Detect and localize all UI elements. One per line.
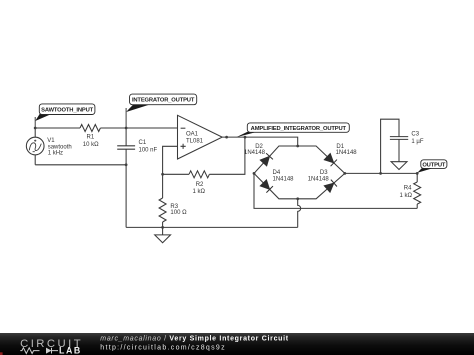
svg-text:sawtooth: sawtooth (48, 144, 72, 150)
svg-text:1 kΩ: 1 kΩ (400, 193, 413, 199)
svg-text:R4: R4 (404, 186, 412, 192)
svg-text:D2: D2 (255, 144, 263, 150)
svg-text:1 kΩ: 1 kΩ (193, 189, 206, 195)
svg-text:10 kΩ: 10 kΩ (83, 142, 99, 148)
svg-text:100 nF: 100 nF (139, 148, 158, 154)
svg-text:1N4148: 1N4148 (273, 176, 295, 182)
svg-text:C3: C3 (411, 132, 419, 138)
svg-text:C1: C1 (139, 140, 147, 146)
svg-text:D4: D4 (273, 170, 281, 176)
svg-text:D3: D3 (320, 170, 328, 176)
svg-text:AMPLIFIED_INTEGRATOR_OUTPUT: AMPLIFIED_INTEGRATOR_OUTPUT (251, 126, 347, 132)
svg-text:R1: R1 (87, 134, 95, 140)
svg-text:INTEGRATOR_OUTPUT: INTEGRATOR_OUTPUT (132, 98, 195, 104)
svg-text:LAB: LAB (59, 346, 82, 355)
svg-text:D1: D1 (336, 144, 344, 150)
svg-text:R2: R2 (196, 182, 204, 188)
svg-text:1N4148: 1N4148 (308, 176, 330, 182)
svg-text:100 Ω: 100 Ω (170, 210, 187, 216)
svg-text:http://circuitlab.com/cz8qs9z: http://circuitlab.com/cz8qs9z (100, 344, 226, 351)
svg-text:1 kHz: 1 kHz (48, 151, 63, 157)
svg-text:1 µF: 1 µF (411, 139, 423, 145)
svg-text:R3: R3 (170, 204, 178, 210)
svg-text:OA1: OA1 (186, 131, 199, 137)
svg-text:OUTPUT: OUTPUT (422, 162, 446, 168)
svg-text:TL081: TL081 (186, 138, 204, 144)
svg-text:1N4148: 1N4148 (244, 150, 266, 156)
svg-text:SAWTOOTH_INPUT: SAWTOOTH_INPUT (41, 107, 94, 113)
svg-text:marc_macalinao / Very Simple I: marc_macalinao / Very Simple Integrator … (100, 335, 289, 342)
svg-text:V1: V1 (47, 138, 55, 144)
svg-text:1N4148: 1N4148 (336, 150, 358, 156)
